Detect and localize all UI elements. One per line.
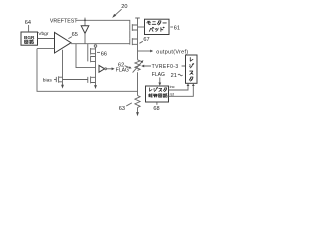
wiper arrow 62 <box>133 62 142 72</box>
label 61 <box>170 26 173 28</box>
transistor upper PMOS <box>130 24 138 31</box>
svg-text:inc: inc <box>170 84 175 89</box>
leader 62 <box>125 66 130 68</box>
svg-text:62: 62 <box>118 63 124 69</box>
resistor 63 <box>135 96 140 108</box>
output column <box>137 25 139 60</box>
BGR circuit box 64 <box>21 32 38 45</box>
stack column wire <box>95 47 97 85</box>
kana register vertical <box>190 58 193 62</box>
pad triangle VREFTEST <box>81 26 89 34</box>
register box 21 <box>186 55 198 83</box>
wire BGR to op-amp noninverting input <box>38 38 55 40</box>
svg-text:bias: bias <box>43 78 53 84</box>
kana monitor pad text <box>147 21 151 24</box>
bias mirror wire <box>63 79 88 81</box>
op-amp 65 <box>55 32 72 53</box>
svg-text:67: 67 <box>143 37 149 43</box>
svg-text:FLAG: FLAG <box>152 72 165 78</box>
wire gate link upper to 67 <box>129 30 131 38</box>
kanji 回路 in BGR box <box>25 40 28 43</box>
FLAG arrow into control box <box>159 77 161 82</box>
transistor 67 PMOS <box>130 38 138 45</box>
register control box 68 <box>146 86 169 102</box>
wire monitor box to column <box>138 26 145 28</box>
wire vdd rail <box>76 20 130 24</box>
feedback wire <box>37 49 138 92</box>
leader 68 <box>156 102 158 104</box>
output wire <box>138 50 151 52</box>
junction dot <box>84 19 86 21</box>
svg-text:64: 64 <box>25 20 31 26</box>
svg-text:BGR: BGR <box>24 35 35 40</box>
wire inverting input <box>37 48 55 50</box>
gate line vertical T1 T2 <box>87 44 89 62</box>
transistor 66 PMOS <box>91 48 96 55</box>
svg-text:output(Vref): output(Vref) <box>156 49 188 55</box>
supply circle terminal <box>94 45 97 48</box>
svg-text:61: 61 <box>174 25 180 31</box>
transistor T3 NMOS bias-driven <box>88 76 96 83</box>
wire inc <box>169 86 189 90</box>
svg-text:TVREF0-3: TVREF0-3 <box>152 64 179 70</box>
junction tick at pad <box>84 18 86 26</box>
leader 63 <box>126 103 132 106</box>
label 66 <box>97 51 100 53</box>
svg-text:VREFTEST: VREFTEST <box>50 18 78 24</box>
svg-text:20: 20 <box>121 4 127 10</box>
op-amp output wire to gates <box>71 43 130 45</box>
wire pad to gate line <box>84 33 86 43</box>
svg-text:68: 68 <box>153 106 159 112</box>
kana register control text <box>150 88 152 91</box>
monitor pad box 61 <box>145 19 170 34</box>
svg-text:Vbgr: Vbgr <box>38 31 49 37</box>
resistor 62 variable <box>135 60 140 71</box>
transistor T2 PMOS <box>91 56 96 63</box>
FLAG wire <box>107 68 112 70</box>
leader 67 <box>139 41 142 43</box>
supply stub <box>135 18 140 25</box>
svg-text:65: 65 <box>72 32 78 38</box>
ground arrow bias <box>62 82 64 85</box>
inverter <box>99 65 105 72</box>
tee wire to inverter node <box>76 44 96 68</box>
transistor bias NMOS <box>56 76 62 82</box>
wire rst <box>169 86 194 97</box>
wire TVREF0-3 <box>144 65 186 67</box>
op-amp tail wire <box>62 50 64 82</box>
svg-text:63: 63 <box>119 106 125 112</box>
svg-text:66: 66 <box>101 51 107 57</box>
ground arrow stack <box>94 85 97 89</box>
wire bias to gate <box>54 79 56 81</box>
column 62 to 63 <box>137 72 139 95</box>
leader 64 <box>28 25 30 31</box>
leader arrow 20 <box>114 9 121 16</box>
ground arrow 63 <box>137 108 139 113</box>
svg-text:21: 21 <box>171 73 177 79</box>
leader 65 <box>68 37 72 39</box>
